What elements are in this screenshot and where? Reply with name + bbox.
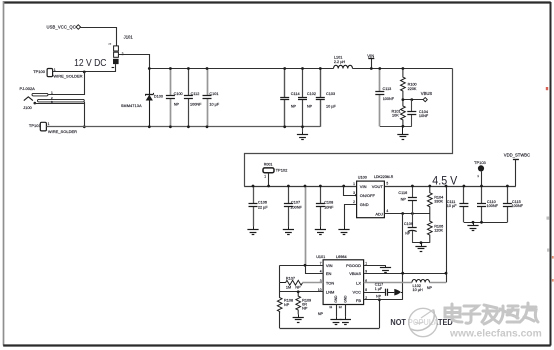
wire U101 VIN bbox=[280, 265, 323, 267]
svg-text:120K: 120K bbox=[434, 229, 443, 233]
label NOT POPULATED bbox=[390, 318, 452, 327]
resistor R107 1M NP bbox=[280, 277, 303, 290]
capacitor C107 bbox=[284, 186, 303, 226]
inductor L101 2.2uH bbox=[334, 56, 353, 69]
svg-text:220K: 220K bbox=[408, 87, 417, 91]
svg-text:R107: R107 bbox=[286, 277, 295, 281]
svg-text:NP: NP bbox=[401, 197, 407, 201]
junction caps bottom bbox=[472, 221, 483, 224]
svg-text:NP: NP bbox=[174, 102, 180, 106]
U101 pin numbers bbox=[318, 262, 367, 301]
svg-text:R001: R001 bbox=[264, 163, 273, 167]
svg-text:10NF: 10NF bbox=[324, 206, 334, 210]
svg-text:D100: D100 bbox=[154, 95, 163, 99]
svg-text:PJ-002A: PJ-002A bbox=[20, 86, 36, 91]
svg-text:U100: U100 bbox=[358, 175, 367, 179]
capacitor C101 bbox=[203, 69, 220, 127]
label WIRE_SOLDER (TP101) bbox=[48, 129, 77, 134]
svg-text:10K: 10K bbox=[392, 113, 399, 117]
capacitor C117 1uF NP bbox=[375, 283, 403, 299]
resistor R109 0R NP bbox=[296, 292, 311, 315]
wire J100 pin3 to ground rail bbox=[35, 102, 85, 127]
svg-text:100NF: 100NF bbox=[512, 204, 524, 208]
connector J100 pin1 lozenge bbox=[32, 91, 53, 96]
svg-text:C108: C108 bbox=[324, 200, 333, 204]
svg-text:TP100: TP100 bbox=[33, 69, 46, 74]
wire U101 PGOOD bbox=[364, 265, 386, 267]
svg-text:FB: FB bbox=[356, 298, 361, 303]
svg-text:ADJ: ADJ bbox=[375, 211, 383, 216]
resistor R104 330K bbox=[427, 186, 443, 214]
capacitor C113 bbox=[375, 69, 394, 127]
svg-text:www.elecfans.com: www.elecfans.com bbox=[449, 328, 542, 339]
wire bottom ground rail bbox=[46, 126, 320, 128]
svg-text:VIN: VIN bbox=[367, 53, 374, 58]
wire 4.5V input rail bbox=[244, 186, 516, 188]
wire R106/C109 bottom node bbox=[412, 242, 430, 244]
node VBUS bbox=[403, 91, 433, 102]
svg-text:R100: R100 bbox=[408, 82, 417, 86]
wire J101 pin2 to top rail bbox=[119, 55, 150, 69]
regulator U100 LDK220M-R box bbox=[357, 175, 394, 218]
svg-text:10 µF: 10 µF bbox=[447, 204, 457, 208]
U101 GND pin drops bbox=[329, 305, 345, 317]
wire U101 VBIAS bbox=[364, 273, 446, 275]
svg-text:NP: NP bbox=[405, 232, 411, 236]
capacitor C106 bbox=[249, 186, 269, 226]
svg-text:1 µF: 1 µF bbox=[375, 287, 383, 291]
svg-text:4: 4 bbox=[386, 209, 388, 213]
svg-text:VIN: VIN bbox=[360, 184, 367, 189]
node USB_VCC_QC connector diamond bbox=[76, 25, 81, 30]
junction U100 VIN/ONOFF tie bbox=[342, 185, 345, 188]
capacitor C100 bbox=[166, 69, 183, 127]
svg-text:100NF: 100NF bbox=[190, 102, 202, 106]
wire J100 pin1 to 12V wire bbox=[49, 72, 85, 95]
svg-text:L101: L101 bbox=[334, 56, 342, 60]
capacitor C104 bbox=[407, 100, 429, 127]
wire USB_VCC_QC to J101 pin1 bbox=[81, 28, 117, 46]
diode D100 zener SMM4713A bbox=[121, 69, 163, 127]
connector J101 minus terminal filled square bbox=[112, 59, 119, 72]
wire EN/R107 left loop bbox=[279, 265, 281, 282]
U100 pin labels bbox=[360, 184, 384, 216]
wire 4.5V to VBIAS/L102 vertical bbox=[446, 186, 448, 282]
connector J101 pin1 square bbox=[108, 43, 118, 51]
svg-text:22 µF: 22 µF bbox=[258, 206, 268, 210]
svg-text:330K: 330K bbox=[434, 200, 443, 204]
svg-text:10 µH: 10 µH bbox=[413, 288, 423, 292]
capacitor C115 bbox=[503, 186, 524, 222]
svg-text:VCC: VCC bbox=[353, 290, 362, 295]
svg-text:TP103: TP103 bbox=[474, 160, 487, 165]
svg-text:100NF: 100NF bbox=[383, 97, 395, 101]
connector J101 label bbox=[124, 34, 134, 39]
svg-text:100NF: 100NF bbox=[487, 204, 499, 208]
svg-text:3: 3 bbox=[353, 191, 355, 195]
svg-text:1: 1 bbox=[48, 122, 50, 126]
junction dots on bottom ground rail bbox=[148, 125, 304, 128]
connector J100 switch zigzag pin3 bbox=[24, 97, 36, 105]
watermark logo circle bbox=[409, 308, 437, 336]
wire FB bottom rail bbox=[280, 328, 380, 330]
ground below R101/C104 bbox=[397, 126, 408, 139]
testpoint TP100 bbox=[33, 68, 56, 76]
junction bottom node bbox=[420, 241, 423, 244]
svg-text:LDK220M-R: LDK220M-R bbox=[374, 175, 394, 179]
capacitor C102 bbox=[298, 69, 316, 127]
svg-text:C106: C106 bbox=[258, 200, 267, 204]
svg-text:PGOOD: PGOOD bbox=[346, 263, 361, 268]
svg-text:NP: NP bbox=[427, 286, 433, 290]
svg-text:12 V DC: 12 V DC bbox=[74, 57, 107, 69]
svg-text:C103: C103 bbox=[326, 92, 335, 96]
capacitor C103 bbox=[316, 69, 337, 127]
svg-text:TON: TON bbox=[326, 280, 334, 285]
junction J100 pin1 riser on TP100 wire bbox=[83, 71, 86, 74]
resistor R106 120K bbox=[427, 214, 443, 243]
wire R107 to TON (gray) bbox=[303, 282, 324, 284]
capacitor C109 bbox=[404, 214, 417, 243]
svg-text:NP: NP bbox=[284, 303, 290, 307]
svg-text:NP: NP bbox=[307, 105, 313, 109]
svg-text:10NF: 10NF bbox=[419, 114, 429, 118]
ground below C106 bbox=[247, 226, 258, 234]
svg-text:TP102: TP102 bbox=[276, 168, 289, 173]
svg-text:1: 1 bbox=[353, 182, 355, 186]
U101 pin labels bbox=[326, 263, 361, 303]
wire U101 LX (gray) bbox=[364, 282, 446, 284]
resistor R101 10K bbox=[392, 100, 406, 127]
svg-text:NP: NP bbox=[318, 312, 324, 316]
svg-text:100NF: 100NF bbox=[290, 206, 302, 210]
svg-text:NP: NP bbox=[302, 307, 308, 311]
svg-text:VIN: VIN bbox=[326, 263, 333, 268]
connector J100 sleeve pin2 lozenge bbox=[38, 96, 85, 104]
wire U100 GND to ground bbox=[345, 205, 357, 227]
wire ADJ to VBIAS/FB vertical bbox=[402, 214, 404, 300]
svg-text:NP: NP bbox=[376, 295, 382, 299]
inductor L102 10uH NP bbox=[412, 280, 433, 293]
svg-text:2.2 µH: 2.2 µH bbox=[334, 60, 346, 64]
svg-text:EN: EN bbox=[326, 271, 332, 276]
resistor R100 220K bbox=[401, 69, 417, 100]
svg-text:C102: C102 bbox=[307, 92, 316, 96]
testpoint TP102 / R001 bbox=[263, 163, 288, 186]
svg-text:5: 5 bbox=[386, 182, 388, 186]
ground below U101 GND pin B bbox=[340, 317, 351, 325]
label 4.5 V bbox=[432, 174, 457, 188]
watermark url text bbox=[449, 328, 542, 339]
svg-text:J101: J101 bbox=[124, 34, 134, 39]
svg-text:J100: J100 bbox=[23, 105, 32, 110]
wire TP100 to J101 minus bbox=[53, 71, 116, 73]
junction C104 top bbox=[410, 98, 413, 101]
svg-text:NP: NP bbox=[295, 285, 301, 289]
junction ADJ vertical bbox=[401, 212, 404, 215]
wire U101 FB bbox=[364, 299, 403, 301]
svg-text:1: 1 bbox=[108, 43, 112, 45]
junction R101 bottom bbox=[402, 125, 405, 128]
ground below C107 bbox=[283, 226, 294, 234]
svg-text:C109: C109 bbox=[404, 222, 413, 226]
label NP (LNM area) bbox=[318, 312, 324, 316]
svg-text:C116: C116 bbox=[398, 191, 407, 195]
wire R108 to bottom rail bbox=[279, 312, 281, 329]
resistor R108 NP bbox=[277, 298, 293, 312]
wire LNM left drop bbox=[279, 283, 281, 298]
label WIRE_SOLDER (TP100) bbox=[53, 74, 82, 79]
node VIN connector bbox=[367, 53, 374, 68]
svg-text:12: 12 bbox=[339, 305, 343, 309]
wire U100 ON/OFF tie bbox=[344, 187, 358, 197]
svg-text:1: 1 bbox=[365, 262, 367, 266]
wire U100 ADJ line bbox=[384, 213, 429, 215]
connector J100 refdes label bbox=[23, 105, 32, 110]
capacitor C108 bbox=[316, 186, 334, 226]
wire U101 LNM bbox=[280, 291, 323, 293]
svg-text:C112: C112 bbox=[191, 92, 200, 96]
svg-text:L6984: L6984 bbox=[336, 255, 347, 259]
svg-text:LX: LX bbox=[356, 280, 361, 285]
svg-text:LNM: LNM bbox=[326, 290, 334, 295]
svg-text:GND: GND bbox=[334, 295, 338, 303]
ground below C102 bbox=[297, 127, 308, 140]
junction R109 top bbox=[297, 290, 300, 293]
wire output caps bottom bbox=[464, 222, 508, 224]
capacitor C114 bbox=[280, 69, 299, 127]
wire U101 EN tie bbox=[306, 266, 324, 274]
label 12 V DC bbox=[74, 57, 107, 69]
watermark edge specks bbox=[546, 87, 554, 282]
ground below R109 bbox=[293, 314, 304, 322]
svg-text:C113: C113 bbox=[383, 87, 392, 91]
capacitor C111 bbox=[447, 186, 469, 222]
svg-text:ON/OFF: ON/OFF bbox=[360, 193, 376, 198]
svg-text:C107: C107 bbox=[291, 200, 300, 204]
svg-text:1M: 1M bbox=[286, 285, 291, 289]
ground below C108 bbox=[315, 226, 326, 234]
ground below U100 GND pin bbox=[338, 226, 349, 234]
junction dots on 12V top rail bbox=[148, 67, 404, 70]
svg-text:WIRE_SOLDER: WIRE_SOLDER bbox=[48, 129, 77, 134]
junction VIN/EN/drop bbox=[304, 264, 307, 267]
wire FB drop bbox=[378, 298, 381, 328]
buck U101 L6984 box bbox=[316, 255, 363, 305]
svg-text:C100: C100 bbox=[174, 92, 183, 96]
capacitor C112 bbox=[184, 69, 202, 127]
svg-text:GND: GND bbox=[344, 295, 348, 303]
wire VIN loop to lower section bbox=[245, 69, 453, 187]
capacitor C116 bbox=[398, 186, 417, 214]
node VDD_STWBC bbox=[504, 152, 530, 186]
svg-text:VBIAS: VBIAS bbox=[349, 271, 361, 276]
ground below U101 GND pin A bbox=[330, 317, 341, 325]
junction J100 sleeve on bottom rail bbox=[83, 125, 86, 128]
junction gray drop at rail bbox=[304, 185, 307, 188]
svg-text:WIRE_SOLDER: WIRE_SOLDER bbox=[53, 74, 82, 79]
wire U101 VCC bbox=[364, 292, 385, 294]
junction R100/R101/VBUS bbox=[402, 98, 405, 101]
svg-text:U101: U101 bbox=[316, 255, 325, 259]
svg-text:10 µF: 10 µF bbox=[326, 105, 336, 109]
svg-text:7: 7 bbox=[320, 262, 322, 266]
testpoint TP103 bbox=[474, 160, 487, 186]
svg-text:SMM4713A: SMM4713A bbox=[121, 104, 142, 108]
svg-text:C101: C101 bbox=[209, 92, 218, 96]
wire top 12V rail bbox=[149, 68, 452, 70]
svg-text:NP: NP bbox=[291, 105, 297, 109]
svg-text:1: 1 bbox=[264, 175, 266, 179]
testpoint TP101 bbox=[29, 122, 50, 131]
svg-text:2: 2 bbox=[353, 200, 355, 204]
svg-text:1: 1 bbox=[477, 174, 479, 178]
watermark chinese text bbox=[445, 303, 538, 324]
ground below output caps bbox=[467, 222, 478, 230]
svg-text:VDD_STWBC: VDD_STWBC bbox=[504, 152, 530, 157]
capacitor C110 bbox=[477, 186, 499, 222]
svg-text:C114: C114 bbox=[291, 92, 300, 96]
svg-text:10 µF: 10 µF bbox=[209, 102, 219, 106]
connector J100 PJ-002A label bbox=[20, 86, 36, 91]
svg-text:11: 11 bbox=[329, 305, 332, 309]
svg-text:8: 8 bbox=[365, 288, 367, 292]
svg-text:VBUS: VBUS bbox=[421, 91, 433, 96]
ground at PGOOD bbox=[380, 265, 391, 272]
junction ADJ/C116 bbox=[411, 212, 414, 215]
junction VBIAS/vertical bbox=[401, 272, 447, 275]
connector J101 pin2 square bbox=[114, 52, 124, 57]
svg-text:VOUT: VOUT bbox=[372, 184, 384, 189]
U100 pin numbers bbox=[353, 182, 388, 213]
ground below R106/C109 bbox=[415, 243, 426, 252]
wire C113/C104 bottom segment bbox=[380, 126, 412, 128]
svg-text:TP101: TP101 bbox=[29, 123, 42, 128]
junction dots on 4.5V rail bbox=[252, 185, 509, 188]
svg-text:GND: GND bbox=[360, 202, 369, 207]
node USB_VCC_QC label bbox=[47, 24, 76, 29]
wire rail to U101 VIN (gray drop) bbox=[305, 186, 307, 265]
svg-text:USB_VCC_QC: USB_VCC_QC bbox=[47, 24, 76, 29]
